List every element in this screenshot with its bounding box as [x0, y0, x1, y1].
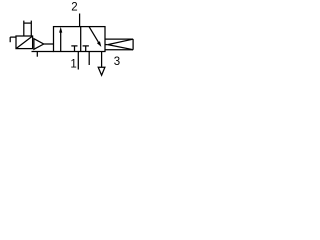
- left electrical wire: [10, 36, 16, 38]
- pilot drain line: [32, 51, 54, 53]
- valve position divider: [80, 27, 82, 52]
- electrical pin right: [30, 21, 32, 36]
- spring top rail: [105, 38, 133, 40]
- left wire terminal tick: [9, 37, 11, 42]
- left square flow arrow (up): [60, 31, 62, 52]
- exhaust triangle: [98, 67, 105, 75]
- valve body: [54, 27, 106, 52]
- port 3 stub: [88, 52, 90, 66]
- svg-text:1: 1: [70, 59, 76, 71]
- spring bottom rail: [105, 49, 133, 51]
- pin crossbar: [24, 22, 32, 24]
- spring lower diagonal: [108, 45, 133, 50]
- pilot triangle: [34, 39, 44, 50]
- pilot drain tick: [36, 52, 38, 57]
- svg-text:2: 2: [71, 1, 77, 13]
- spring middle stub: [105, 44, 108, 46]
- electrical pin left: [23, 21, 25, 36]
- right square flow arrow (diagonal down-right): [89, 27, 99, 43]
- solenoid coil box: [16, 36, 33, 49]
- spring right edge: [132, 39, 134, 50]
- port 2 line: [79, 14, 81, 27]
- svg-text:3: 3: [114, 56, 120, 68]
- right square blocked port T: [83, 45, 89, 47]
- pilot connector line: [44, 43, 54, 45]
- exhaust stem: [101, 52, 103, 68]
- left square blocked port T: [71, 45, 77, 47]
- port 1 line: [77, 52, 79, 70]
- solenoid box diagonal: [16, 36, 33, 49]
- spring upper diagonal: [108, 39, 133, 45]
